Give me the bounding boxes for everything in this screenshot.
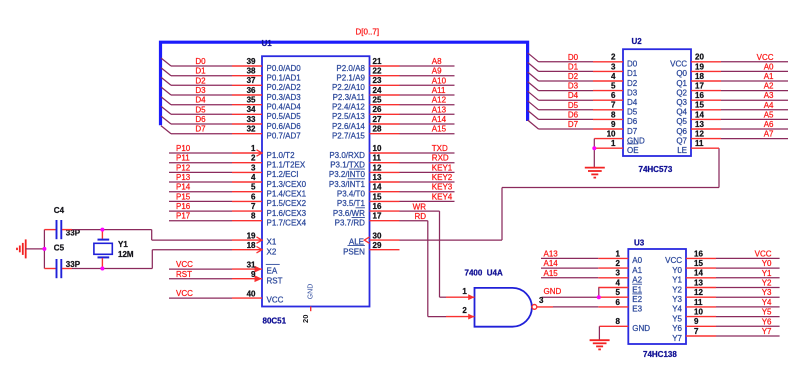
U1 pin number 34: [247, 105, 256, 114]
U3 pin number 2: [616, 259, 621, 268]
U1 pin 14 stub: [370, 191, 400, 193]
svg-text:D3: D3: [627, 88, 638, 97]
U1 pin name P2.0/A8: [336, 64, 365, 73]
U1 pin number 19: [247, 231, 256, 240]
U2 reference designator: [632, 37, 643, 46]
nand gate U4A body: [475, 288, 532, 327]
svg-text:80C51: 80C51: [263, 317, 287, 326]
U1 pin 23 stub: [370, 84, 400, 86]
wire Y7 net (U3 pin 7): [716, 335, 780, 337]
svg-text:15: 15: [373, 192, 382, 201]
svg-text:14: 14: [373, 183, 382, 192]
U1 pin number 35: [247, 96, 256, 105]
svg-text:40: 40: [247, 289, 256, 298]
U1 pin number 2: [251, 154, 256, 163]
net label P16: [176, 202, 191, 211]
U3 pin name Y7: [672, 334, 682, 343]
svg-text:25: 25: [373, 96, 382, 105]
U1 pin name P2.6/A14: [332, 122, 365, 131]
U3 pin number 5: [616, 288, 621, 297]
U1 pin 9 arrow: [255, 275, 263, 282]
net label A11: [432, 86, 446, 95]
net label A10: [432, 76, 447, 85]
label C4: [54, 206, 65, 215]
U3 pin number 12: [694, 288, 703, 297]
svg-text:3: 3: [251, 163, 256, 172]
wire Y4 net (U3 pin 11): [716, 306, 780, 308]
wire WR net (pin16 to NAND input 1): [400, 211, 447, 297]
wire KEY1 net: [400, 171, 455, 173]
U1 pin name P1.3/CEX0: [267, 180, 307, 189]
U3 pin number 11: [694, 298, 703, 307]
U2 pin 17 stub: [691, 90, 721, 92]
U4A pin number 1: [462, 287, 467, 296]
U3 pin 3 stub: [598, 277, 628, 279]
U1 pin name EA with overline: [266, 264, 280, 275]
U1 pin number 15: [373, 192, 382, 201]
U1 pin number 26: [373, 105, 382, 114]
U2 pin name D2: [627, 79, 638, 88]
U2 pin number 4: [611, 72, 616, 81]
wire D3 net (bus tap to U2 pin 5): [539, 90, 594, 92]
U1 pin 3 stub: [232, 171, 262, 173]
net label A4 (U2): [764, 101, 774, 110]
U1 pin name P3.2/INT0: [329, 170, 366, 179]
net label D7 (U2): [568, 120, 579, 129]
wire ground to junction: [26, 248, 45, 250]
svg-text:6: 6: [251, 192, 256, 201]
net label Y1 (U3): [762, 269, 772, 278]
U2 pin number 10: [607, 130, 616, 139]
wire vertical C4/C5 join: [43, 230, 45, 269]
U1 pin name VCC: [267, 296, 284, 305]
net label Y4 (U3): [762, 298, 772, 307]
U1 pin 10 stub: [370, 152, 400, 154]
svg-text:1: 1: [462, 287, 467, 296]
net label KEY1: [432, 163, 453, 172]
U2 pin 3 stub: [593, 70, 623, 72]
U1 pin name P1.0/T2: [267, 151, 296, 160]
svg-text:3: 3: [539, 296, 544, 305]
U2 pin name Q0: [676, 69, 687, 78]
U2 pin name Q3: [676, 98, 687, 107]
svg-text:P14: P14: [176, 183, 191, 192]
U1 pin 39 stub: [232, 65, 262, 67]
svg-text:RXD: RXD: [432, 154, 449, 163]
U1 pin 28 stub: [370, 133, 400, 135]
net label P12: [176, 163, 191, 172]
U1 pin number 29: [373, 241, 382, 250]
wire Y5 net (U3 pin 10): [716, 316, 780, 318]
svg-text:P10: P10: [176, 144, 191, 153]
svg-text:D[0..7]: D[0..7]: [356, 28, 380, 37]
svg-text:P1.3/CEX0: P1.3/CEX0: [267, 180, 307, 189]
net label GND (U3): [544, 287, 562, 296]
U3 pin number 6: [616, 298, 621, 307]
U3 pin name GND: [632, 324, 650, 333]
U2 pin name Q7: [676, 136, 687, 145]
svg-text:18: 18: [695, 72, 704, 81]
U3 pin 4 stub: [598, 287, 628, 289]
U2 pin number 11: [695, 139, 704, 148]
svg-text:2: 2: [611, 53, 616, 62]
net label TXD: [432, 144, 448, 153]
U1 pin number 39: [247, 57, 256, 66]
U1 pin number 16: [373, 202, 382, 211]
wire A6 net (U2 pin 13): [721, 128, 788, 130]
U1 pin name X1: [267, 238, 277, 247]
svg-text:Y2: Y2: [762, 279, 772, 288]
svg-text:Y7: Y7: [762, 327, 772, 336]
U1 pin number 17: [373, 212, 382, 221]
U1 pin number 27: [373, 115, 382, 124]
svg-text:RST: RST: [176, 270, 192, 279]
svg-text:GND: GND: [308, 284, 315, 300]
node junction at E2: [597, 295, 601, 299]
net label P13: [176, 173, 191, 182]
svg-text:8: 8: [251, 212, 256, 221]
U2 value 74HC573: [639, 165, 673, 174]
U1 pin number 1: [251, 144, 256, 153]
svg-text:P1.1/T2EX: P1.1/T2EX: [267, 161, 306, 170]
U2 pin number 8: [611, 110, 616, 119]
net label A8: [432, 57, 442, 66]
U2 pin 8 stub: [593, 118, 623, 120]
svg-text:A14: A14: [432, 115, 447, 124]
wire D1 net (bus tap to U2 pin 3): [539, 70, 594, 72]
svg-text:8: 8: [611, 110, 616, 119]
svg-text:P0.3/AD3: P0.3/AD3: [267, 93, 302, 102]
svg-text:Q0: Q0: [676, 69, 687, 78]
U1 pin number 20 (rotated): [301, 315, 310, 323]
svg-text:A1: A1: [764, 72, 774, 81]
U1 pin 30 stub (ALE): [370, 239, 400, 241]
U1 pin name P0.7/AD7: [267, 132, 302, 141]
wire P10 net: [169, 152, 232, 154]
U3 pin 6 stub: [598, 306, 628, 308]
net label D3 (U2): [568, 82, 579, 91]
wire RD net (pin17 to NAND input 2): [400, 221, 447, 317]
svg-text:Y1: Y1: [672, 276, 682, 285]
svg-text:14: 14: [695, 110, 704, 119]
U1 pin 19 chevron: [257, 237, 263, 243]
U4A pin number 3: [539, 296, 544, 305]
U3 pin name E2: [632, 295, 642, 304]
net label A3 (U2): [764, 91, 774, 100]
ground (crystal, sideways): [17, 239, 26, 258]
svg-text:Q6: Q6: [676, 127, 687, 136]
svg-text:30: 30: [373, 231, 382, 240]
svg-text:P1.4/CEX1: P1.4/CEX1: [267, 190, 307, 199]
U1 pin 5 stub: [232, 191, 262, 193]
svg-text:36: 36: [247, 86, 256, 95]
svg-text:P2.0/A8: P2.0/A8: [336, 64, 365, 73]
U1 pin 38 stub: [232, 75, 262, 77]
svg-text:P0.2/AD2: P0.2/AD2: [267, 83, 302, 92]
bus D[0..7]: [161, 42, 528, 125]
svg-text:Y1: Y1: [762, 269, 772, 278]
wire A13 net: [400, 113, 455, 115]
U1 pin name P0.5/AD5: [267, 112, 302, 121]
svg-text:E1: E1: [632, 285, 642, 294]
svg-text:D4: D4: [627, 98, 638, 107]
U4A input 2 stub: [446, 316, 475, 318]
svg-text:P0.4/AD4: P0.4/AD4: [267, 103, 302, 112]
U1 pin 7 stub: [232, 210, 262, 212]
svg-text:A7: A7: [764, 130, 774, 139]
net label A14: [544, 259, 559, 268]
svg-text:2: 2: [251, 154, 256, 163]
wire C4 row left (cap stub): [44, 229, 55, 231]
U3 pin name A1: [632, 266, 642, 275]
U1 pin 15 stub: [370, 200, 400, 202]
svg-text:VCC: VCC: [176, 289, 193, 298]
svg-text:A15: A15: [544, 269, 559, 278]
svg-text:D5: D5: [568, 101, 579, 110]
svg-text:22: 22: [373, 67, 382, 76]
svg-text:A3: A3: [764, 91, 774, 100]
U1 pin 25 stub: [370, 104, 400, 106]
svg-text:6: 6: [611, 91, 616, 100]
U2 pin 13 stub: [691, 128, 721, 130]
svg-text:D4: D4: [568, 91, 579, 100]
wire RST net to pin 9: [169, 278, 232, 280]
U2 pin name VCC: [670, 60, 687, 69]
net label VCC (pin40): [176, 289, 193, 298]
U2 pin number 7: [611, 101, 616, 110]
U1 pin number 32: [247, 125, 256, 134]
svg-text:2: 2: [616, 259, 621, 268]
U1 pin 20 stub (GND, bottom): [310, 307, 312, 312]
U3 pin name Y3: [672, 295, 682, 304]
net label VCC (U2): [757, 53, 774, 62]
svg-text:P1.5/CEX2: P1.5/CEX2: [267, 199, 307, 208]
U1 pin name P2.2/A10: [332, 83, 365, 92]
label Y1: [118, 240, 128, 249]
U3 pin 7 stub: [686, 335, 716, 337]
svg-text:1: 1: [616, 249, 621, 258]
svg-text:9: 9: [251, 270, 256, 279]
U2 pin number 2: [611, 53, 616, 62]
U2 pin name LE: [677, 146, 687, 155]
U3 pin name Y4: [672, 305, 682, 314]
svg-text:4: 4: [616, 278, 621, 287]
svg-text:Q5: Q5: [676, 117, 687, 126]
net label KEY4: [432, 192, 453, 201]
svg-text:11: 11: [694, 298, 703, 307]
svg-text:D1: D1: [627, 69, 638, 78]
wire P16 net: [169, 210, 232, 212]
U1 pin number 38: [247, 67, 256, 76]
svg-text:VCC: VCC: [757, 53, 774, 62]
wire GND net to U3 E1/E2: [542, 288, 599, 298]
svg-text:A2: A2: [632, 276, 642, 285]
wire D6 net (bus tap to U2 pin 8): [539, 118, 594, 120]
U3 pin number 4: [616, 278, 621, 287]
svg-text:11: 11: [695, 139, 704, 148]
svg-text:A2: A2: [764, 82, 774, 91]
svg-text:KEY4: KEY4: [432, 192, 453, 201]
U1 pin 27 stub: [370, 123, 400, 125]
U2 pin 2 stub: [593, 61, 623, 63]
wire D5 net (bus tap to U2 pin 7): [539, 109, 594, 111]
U1 pin 35 stub: [232, 104, 262, 106]
svg-text:10: 10: [694, 308, 703, 317]
svg-text:Y5: Y5: [672, 314, 682, 323]
svg-text:P17: P17: [176, 212, 191, 221]
svg-text:U1: U1: [262, 39, 273, 48]
svg-text:11: 11: [373, 154, 382, 163]
svg-text:Q4: Q4: [676, 108, 687, 117]
U2 pin name D5: [627, 108, 638, 117]
U3 pin number 7: [694, 327, 699, 336]
U3 pin number 8: [616, 317, 621, 326]
net label Y5 (U3): [762, 308, 772, 317]
net label RST: [176, 270, 192, 279]
bus entries (right, to U2 D wires): [528, 53, 539, 129]
U1 pin 32 stub: [232, 133, 262, 135]
net label D1 (U2): [568, 62, 579, 71]
wire P17 net: [169, 220, 232, 222]
wire KEY3 net: [400, 191, 455, 193]
svg-text:Y0: Y0: [762, 259, 772, 268]
svg-text:21: 21: [373, 57, 382, 66]
svg-text:D3: D3: [195, 86, 206, 95]
wire P11 net: [169, 162, 232, 164]
svg-text:P12: P12: [176, 163, 191, 172]
svg-text:P2.3/A11: P2.3/A11: [333, 93, 366, 102]
U1 pin 4 stub: [232, 181, 262, 183]
svg-text:U2: U2: [632, 37, 643, 46]
svg-text:P1.2/ECI: P1.2/ECI: [267, 170, 299, 179]
U4A pin number 2: [462, 306, 467, 315]
U3 pin number 14: [694, 269, 703, 278]
svg-text:19: 19: [247, 231, 256, 240]
svg-text:Y6: Y6: [762, 317, 772, 326]
wire A12 net: [400, 104, 455, 106]
svg-text:A6: A6: [764, 120, 774, 129]
wire VCC net to pin 31: [169, 268, 232, 270]
U2 pin 12 stub: [691, 138, 721, 140]
svg-text:D1: D1: [195, 67, 206, 76]
net label A1 (U2): [764, 72, 774, 81]
svg-text:P0.0/AD0: P0.0/AD0: [267, 64, 302, 73]
svg-text:VCC: VCC: [665, 256, 682, 265]
net label P14: [176, 183, 191, 192]
wire A2 net (U2 pin 17): [721, 90, 788, 92]
svg-text:C5: C5: [54, 244, 65, 253]
net label A15: [432, 125, 447, 134]
U1 pin number 30: [373, 231, 382, 240]
label 33P (C4): [66, 229, 81, 238]
svg-text:15: 15: [694, 259, 703, 268]
U3 pin 11 stub: [686, 306, 716, 308]
U1 pin name P0.1/AD1: [267, 74, 302, 83]
U1 pin number 24: [373, 86, 382, 95]
U3 pin 5 stub: [598, 296, 628, 298]
svg-text:16: 16: [695, 91, 704, 100]
wire D4 net (bus tap to U1 pin 35): [171, 104, 232, 106]
wire A9 net: [400, 75, 455, 77]
net label A14: [432, 115, 447, 124]
svg-text:A12: A12: [432, 96, 447, 105]
wire GND/OE down to ground: [593, 139, 595, 168]
ground (U2): [585, 168, 605, 178]
U2 pin number 18: [695, 72, 704, 81]
wire P15 net: [169, 200, 232, 202]
chip U1 80C51 body: [262, 56, 370, 306]
U1 pin name P3.7/RD: [335, 219, 365, 228]
wire D5 net (bus tap to U1 pin 34): [171, 113, 232, 115]
net label RXD: [432, 154, 449, 163]
U1 pin name P0.6/AD6: [267, 122, 302, 131]
U3 pin number 16: [694, 249, 703, 258]
svg-text:Y2: Y2: [672, 285, 682, 294]
U2 pin name Q1: [676, 79, 687, 88]
U1 pin 18 stub (X2): [232, 249, 262, 251]
node junction crystal top: [100, 228, 104, 232]
U2 pin name Q4: [676, 108, 687, 117]
svg-text:12: 12: [373, 163, 382, 172]
svg-text:D7: D7: [195, 125, 206, 134]
U1 pin number 4: [251, 173, 256, 182]
bus net label D[0..7]: [356, 28, 380, 37]
U4A output bubble: [532, 305, 537, 310]
svg-text:27: 27: [373, 115, 382, 124]
wire VCC net (U3 pin 16): [716, 257, 780, 259]
U1 pin 1 stub: [232, 152, 262, 154]
U2 pin 1 stub (OE): [594, 147, 623, 149]
label C5: [54, 244, 65, 253]
U2 pin number 17: [695, 82, 704, 91]
svg-text:U3: U3: [634, 239, 645, 248]
U2 pin name Q2: [676, 88, 687, 97]
svg-text:29: 29: [373, 241, 382, 250]
wire A15 net: [541, 277, 598, 279]
svg-text:P0.7/AD7: P0.7/AD7: [267, 132, 302, 141]
U1 pin number 31: [247, 260, 256, 269]
U2 pin number 6: [611, 91, 616, 100]
svg-text:A0: A0: [764, 62, 774, 71]
wire P13 net: [169, 181, 232, 183]
svg-text:P1.7/CEX4: P1.7/CEX4: [267, 219, 307, 228]
svg-text:A14: A14: [544, 259, 559, 268]
U1 pin 11 stub: [370, 162, 400, 164]
svg-text:Q1: Q1: [676, 79, 687, 88]
wire A8 net: [400, 65, 455, 67]
U3 pin name Y2: [672, 285, 682, 294]
svg-text:17: 17: [373, 212, 382, 221]
U1 pin 16 stub: [370, 210, 400, 212]
svg-text:Y4: Y4: [672, 305, 682, 314]
U1 pin name P3.4/T0: [337, 190, 366, 199]
crystal Y1: [94, 230, 112, 269]
bus entries (left, to U1 P0 wires): [161, 58, 171, 134]
U1 pin number 8: [251, 212, 256, 221]
wire D7 net (bus tap to U2 pin 9): [539, 128, 594, 130]
svg-text:P0.6/AD6: P0.6/AD6: [267, 122, 302, 131]
svg-text:26: 26: [373, 105, 382, 114]
U3 pin 14 stub: [686, 277, 716, 279]
U2 pin 14 stub: [691, 118, 721, 120]
wire A14 net: [541, 267, 598, 269]
wire A1 net (U2 pin 18): [721, 80, 788, 82]
svg-text:Q7: Q7: [676, 136, 687, 145]
U1 pin number 28: [373, 125, 382, 134]
U2 pin name Q5: [676, 117, 687, 126]
svg-text:LE: LE: [677, 146, 687, 155]
svg-text:8: 8: [616, 317, 621, 326]
